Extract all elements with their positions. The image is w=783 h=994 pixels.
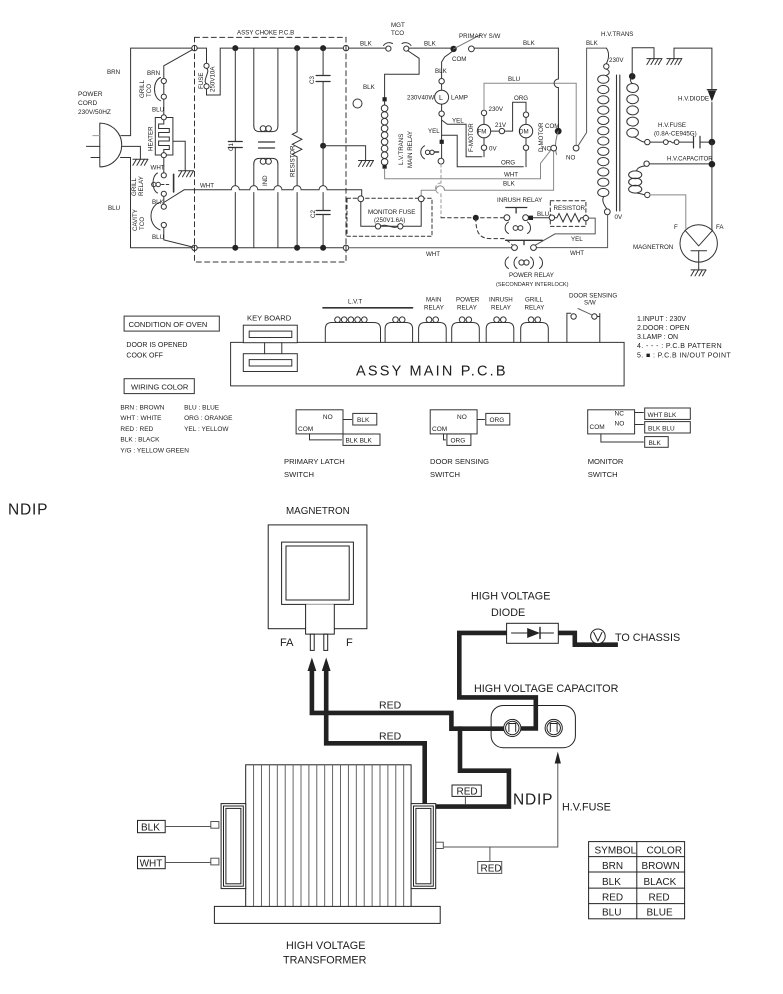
svg-text:WHT BLK: WHT BLK bbox=[648, 412, 677, 419]
capacitor terminal 2 bbox=[545, 719, 562, 736]
svg-text:BLK BLU: BLK BLU bbox=[648, 425, 675, 432]
HVT 0V terminal bbox=[603, 196, 607, 209]
inrush relay coil bbox=[505, 222, 530, 234]
yel wire resistor to power relay bbox=[534, 218, 596, 246]
svg-text:POWER: POWER bbox=[456, 297, 480, 304]
junction dots bottom bus bbox=[232, 245, 238, 251]
wire square to relay contact bbox=[441, 144, 443, 159]
LV trans pcb square top bbox=[383, 97, 387, 101]
condition of oven box bbox=[124, 316, 219, 331]
HV fuse bbox=[645, 139, 650, 144]
svg-text:YEL : YELLOW: YEL : YELLOW bbox=[184, 426, 229, 433]
svg-text:BLUE: BLUE bbox=[647, 908, 673, 919]
diode thick lead right bbox=[558, 633, 618, 645]
choke bottom coil (IND) bbox=[254, 158, 278, 164]
ground hvt2 bbox=[667, 59, 682, 65]
resistor element bbox=[549, 215, 554, 220]
svg-text:PRIMARY S/W: PRIMARY S/W bbox=[459, 33, 501, 40]
svg-text:RELAY: RELAY bbox=[491, 305, 511, 312]
dashed branch to power relay bbox=[476, 218, 512, 245]
svg-text:RED: RED bbox=[379, 700, 402, 712]
svg-text:WHT: WHT bbox=[140, 858, 163, 869]
svg-text:21V: 21V bbox=[495, 122, 507, 129]
svg-text:BLK: BLK bbox=[602, 877, 621, 888]
svg-text:230V: 230V bbox=[609, 57, 624, 64]
wht wire bottom long bbox=[349, 215, 608, 248]
svg-text:GRILL: GRILL bbox=[139, 80, 146, 98]
svg-text:BLACK: BLACK bbox=[644, 877, 677, 888]
svg-text:TRANSFORMER: TRANSFORMER bbox=[283, 955, 367, 967]
wire MGT TCO drop to LV trans bbox=[385, 51, 420, 98]
H.V. diode bbox=[711, 48, 713, 139]
svg-text:BLK: BLK bbox=[586, 40, 599, 47]
svg-text:RED : RED: RED : RED bbox=[120, 426, 153, 433]
svg-text:COLOR: COLOR bbox=[647, 846, 683, 857]
dashed pcb pattern from main relay down bbox=[440, 164, 442, 218]
svg-text:RED: RED bbox=[379, 731, 402, 743]
power relay coil bbox=[505, 257, 542, 269]
svg-text:ASSY CHOKE P.C.B: ASSY CHOKE P.C.B bbox=[237, 30, 294, 37]
secondary to fuse bbox=[634, 137, 645, 142]
svg-text:BLK: BLK bbox=[424, 41, 437, 48]
FA arrow bbox=[308, 658, 317, 672]
terminal T4 bottom-right of choke bbox=[343, 245, 348, 250]
svg-text:WHT: WHT bbox=[426, 251, 440, 258]
svg-text:PRIMARY LATCH: PRIMARY LATCH bbox=[284, 457, 345, 466]
magnetron inner box bbox=[286, 546, 349, 600]
svg-text:DOOR IS OPENED: DOOR IS OPENED bbox=[126, 342, 187, 349]
left thick wire into capacitor region bbox=[458, 633, 460, 695]
wire plug middle to ground bbox=[122, 146, 140, 159]
junction dots top bus bbox=[232, 45, 238, 51]
BLK box with lead bbox=[138, 820, 166, 832]
svg-text:COM: COM bbox=[452, 56, 466, 63]
HV fuse thin line with arrow bbox=[444, 762, 558, 847]
inrush relay dashed pattern wire bbox=[441, 217, 504, 219]
svg-text:H.V.CAPACITOR: H.V.CAPACITOR bbox=[667, 157, 713, 163]
svg-text:MONITOR FUSE: MONITOR FUSE bbox=[368, 209, 415, 216]
WHT hop wire through choke bbox=[184, 186, 362, 197]
svg-text:BRN: BRN bbox=[147, 70, 160, 77]
mounting hole circle bbox=[353, 99, 362, 108]
svg-text:DIODE: DIODE bbox=[491, 607, 525, 619]
svg-text:C3: C3 bbox=[309, 76, 316, 84]
right lug with lead bbox=[436, 842, 444, 848]
HVT secondary top dot bbox=[629, 73, 636, 80]
svg-text:250V10A: 250V10A bbox=[210, 66, 217, 92]
svg-text:WHT: WHT bbox=[570, 250, 584, 257]
svg-text:DOOR SENSING: DOOR SENSING bbox=[430, 457, 489, 466]
F-MOTOR bbox=[481, 110, 486, 115]
svg-text:0V: 0V bbox=[615, 214, 623, 221]
key board upper box bbox=[243, 325, 297, 343]
svg-text:ASSY MAIN P.C.B: ASSY MAIN P.C.B bbox=[356, 364, 508, 380]
svg-text:BLU: BLU bbox=[602, 908, 621, 919]
svg-text:MAGNETRON: MAGNETRON bbox=[633, 244, 673, 251]
HVT 230V terminal bbox=[606, 48, 608, 64]
resistor dashed box bbox=[550, 201, 586, 227]
right bobbin bbox=[411, 804, 436, 889]
wire inrush to resistor bbox=[533, 217, 549, 219]
svg-text:BLU : BLUE: BLU : BLUE bbox=[184, 405, 220, 412]
wire heater to grill relay bbox=[163, 158, 165, 173]
wire heater right tap to ground bbox=[173, 141, 185, 171]
dot at diode column fuse row bbox=[709, 139, 716, 146]
main relay contact circle bbox=[438, 158, 444, 164]
monitor switch diagram bbox=[588, 410, 635, 434]
svg-text:BLU: BLU bbox=[537, 211, 549, 218]
filament coil bbox=[637, 166, 645, 171]
svg-text:RELAY: RELAY bbox=[138, 176, 145, 196]
chassis screw symbol bbox=[591, 629, 606, 644]
grill relay bbox=[161, 173, 166, 178]
magnetron stem bbox=[306, 604, 335, 634]
D-MOTOR bbox=[523, 112, 528, 117]
choke top coil bbox=[254, 126, 278, 132]
svg-text:H.V.FUSE: H.V.FUSE bbox=[658, 122, 686, 129]
svg-text:FM: FM bbox=[478, 129, 487, 136]
BLK wire long hop bbox=[421, 151, 553, 196]
capacitor terminal 1 bbox=[504, 719, 521, 736]
wire BLU bottom from plug bbox=[121, 158, 192, 248]
door sw COM dot bbox=[555, 128, 562, 135]
monitor fuse dashed box bbox=[347, 198, 432, 236]
svg-text:(SECONDARY INTERLOCK): (SECONDARY INTERLOCK) bbox=[496, 282, 569, 288]
RED box 2 stem bbox=[489, 847, 491, 861]
svg-text:F: F bbox=[346, 637, 353, 649]
wire primary COM down to lamp bbox=[442, 51, 454, 79]
svg-text:DM: DM bbox=[519, 129, 529, 136]
svg-text:F: F bbox=[674, 224, 678, 231]
inrush relay contacts bbox=[504, 215, 510, 221]
svg-text:(250V1.6A): (250V1.6A) bbox=[374, 217, 405, 224]
svg-text:H.V.DIODE: H.V.DIODE bbox=[678, 96, 709, 103]
svg-text:MAGNETRON: MAGNETRON bbox=[286, 506, 350, 517]
svg-text:BLK: BLK bbox=[649, 440, 662, 447]
svg-text:L.V.TRANS: L.V.TRANS bbox=[398, 134, 405, 165]
choke core bbox=[259, 142, 275, 148]
svg-text:CORD: CORD bbox=[78, 100, 97, 107]
plug prong 3 bbox=[91, 157, 100, 159]
wire 21V to DM top bbox=[505, 102, 526, 131]
capacitor C3 bbox=[322, 48, 324, 142]
capacitor C1 bbox=[234, 48, 236, 248]
svg-text:MAIN: MAIN bbox=[426, 297, 441, 304]
magnetron middle box bbox=[282, 542, 354, 604]
WHT wire from LVT bottom bbox=[385, 150, 552, 179]
lamp bottom terminal bbox=[441, 104, 443, 111]
door sw blade bbox=[556, 131, 559, 154]
svg-text:BLK: BLK bbox=[141, 822, 160, 833]
svg-text:NO: NO bbox=[615, 421, 625, 428]
svg-text:C1: C1 bbox=[228, 143, 235, 151]
cavity TCO bbox=[161, 204, 166, 209]
svg-text:FUSE: FUSE bbox=[198, 72, 205, 89]
thick wire F path bbox=[326, 666, 511, 807]
door sw NO contact bbox=[573, 145, 579, 151]
HVT primary coil bbox=[606, 69, 609, 75]
svg-text:230V40W: 230V40W bbox=[407, 95, 434, 102]
plug prong 1 bbox=[93, 135, 100, 137]
fuse bbox=[204, 63, 209, 68]
svg-text:FA: FA bbox=[280, 637, 294, 649]
dot on dashed bbox=[473, 215, 479, 221]
base plate bbox=[214, 906, 440, 923]
HVT secondary coil bbox=[627, 84, 639, 93]
svg-text:ORG: ORG bbox=[514, 95, 528, 102]
svg-text:BLK BLK: BLK BLK bbox=[346, 438, 373, 445]
svg-text:RELAY: RELAY bbox=[424, 305, 444, 312]
svg-text:NC: NC bbox=[615, 411, 625, 418]
terminal T3 top-right of choke bbox=[343, 45, 348, 50]
svg-text:POWER RELAY: POWER RELAY bbox=[509, 272, 554, 279]
svg-text:H.V.TRANS: H.V.TRANS bbox=[601, 31, 633, 38]
diode thick lead left bbox=[459, 633, 536, 729]
svg-text:YEL: YEL bbox=[428, 128, 440, 135]
wiring color box bbox=[124, 379, 194, 394]
svg-text:HIGH VOLTAGE CAPACITOR: HIGH VOLTAGE CAPACITOR bbox=[474, 683, 619, 695]
svg-text:BLK: BLK bbox=[503, 181, 516, 188]
svg-text:BLU: BLU bbox=[152, 234, 164, 241]
HVT core bbox=[617, 75, 620, 211]
svg-text:BRN: BRN bbox=[602, 861, 623, 872]
svg-text:NO: NO bbox=[457, 414, 467, 421]
FM 0V stub to YEL wire bbox=[483, 150, 485, 156]
ground hvt1 bbox=[647, 59, 662, 65]
wire from T1 down-left to grill TCO bbox=[164, 50, 193, 79]
diode symbol bbox=[512, 632, 554, 634]
svg-text:LAMP: LAMP bbox=[451, 95, 468, 102]
wire filament F to magnetron bbox=[650, 195, 686, 229]
ground at plug bbox=[133, 159, 148, 165]
svg-text:(0.8A-CE945G): (0.8A-CE945G) bbox=[654, 131, 697, 138]
svg-text:BLK: BLK bbox=[357, 417, 370, 424]
svg-text:BRN : BROWN: BRN : BROWN bbox=[120, 405, 164, 412]
svg-text:TCO: TCO bbox=[139, 217, 146, 230]
svg-text:RESISTOR: RESISTOR bbox=[290, 145, 297, 177]
svg-text:L.V.T: L.V.T bbox=[348, 299, 362, 306]
svg-text:BLK : BLACK: BLK : BLACK bbox=[120, 437, 160, 444]
svg-text:BLU: BLU bbox=[152, 107, 164, 114]
bottom bus wire bbox=[197, 247, 345, 249]
svg-text:WHT: WHT bbox=[504, 172, 518, 179]
svg-text:NDIP: NDIP bbox=[8, 502, 48, 519]
svg-text:4. - - - : P.C.B PATTERN: 4. - - - : P.C.B PATTERN bbox=[637, 343, 722, 350]
svg-text:SWITCH: SWITCH bbox=[284, 470, 314, 479]
svg-text:FA: FA bbox=[716, 224, 724, 231]
LVT coil arch 2 bbox=[385, 323, 413, 343]
svg-text:RESISTOR: RESISTOR bbox=[554, 205, 586, 212]
diode box bbox=[507, 623, 559, 643]
svg-text:COM: COM bbox=[590, 424, 605, 431]
svg-text:RED: RED bbox=[602, 892, 623, 903]
svg-text:S/W: S/W bbox=[584, 300, 596, 307]
svg-text:COM: COM bbox=[298, 426, 313, 433]
svg-text:RED: RED bbox=[481, 863, 502, 874]
svg-text:WIRING COLOR: WIRING COLOR bbox=[131, 383, 189, 392]
svg-text:WHT: WHT bbox=[151, 165, 165, 172]
wire grill tco to heater bbox=[163, 84, 165, 115]
capacitor C2 bbox=[322, 146, 324, 248]
svg-text:F-MOTOR: F-MOTOR bbox=[468, 123, 475, 152]
RED box 1 stem bbox=[464, 796, 466, 804]
fuse to cap plates bbox=[679, 141, 709, 143]
svg-text:TCO: TCO bbox=[146, 84, 153, 97]
svg-text:SWITCH: SWITCH bbox=[430, 470, 460, 479]
wire to mid ground bbox=[323, 146, 366, 161]
primary switch blade bbox=[454, 35, 481, 49]
svg-text:BLK: BLK bbox=[360, 41, 373, 48]
choke pcb dashed box bbox=[195, 37, 347, 262]
svg-text:HIGH VOLTAGE: HIGH VOLTAGE bbox=[471, 591, 550, 603]
svg-text:GRILL: GRILL bbox=[525, 297, 543, 304]
wire diode column down to magnetron FA bbox=[711, 142, 713, 229]
svg-text:ORG: ORG bbox=[490, 417, 505, 424]
terminal T2 bottom-left of choke pcb bbox=[192, 245, 197, 250]
svg-text:BLK: BLK bbox=[435, 68, 448, 75]
pcb square after inrush bbox=[529, 216, 533, 220]
terminal T1 top-left of choke pcb bbox=[192, 45, 197, 50]
wire BRN top from plug bbox=[121, 48, 192, 136]
svg-text:BLU: BLU bbox=[508, 76, 520, 83]
svg-text:NO: NO bbox=[323, 414, 333, 421]
svg-text:C2: C2 bbox=[310, 210, 317, 218]
svg-text:TCO: TCO bbox=[391, 30, 404, 37]
svg-text:HEATER: HEATER bbox=[148, 126, 155, 151]
capacitor body bbox=[491, 706, 575, 748]
svg-text:TO CHASSIS: TO CHASSIS bbox=[615, 632, 680, 644]
svg-text:SYMBOL: SYMBOL bbox=[595, 846, 637, 857]
power relay contacts bbox=[512, 245, 518, 251]
LVT coil arch 1 bbox=[325, 323, 380, 343]
assy main pcb box bbox=[231, 342, 624, 386]
primary switch COM dot bbox=[450, 46, 456, 52]
key board lower box bbox=[243, 354, 297, 372]
wire primary switch to right BLK bbox=[474, 47, 558, 49]
svg-text:1.INPUT : 230V: 1.INPUT : 230V bbox=[637, 316, 686, 323]
svg-text:H.V.FUSE: H.V.FUSE bbox=[562, 802, 611, 814]
svg-text:MONITOR: MONITOR bbox=[588, 457, 624, 466]
magnetron outer box bbox=[268, 525, 367, 629]
svg-text:CONDITION OF OVEN: CONDITION OF OVEN bbox=[129, 320, 208, 329]
svg-text:SWITCH: SWITCH bbox=[588, 470, 618, 479]
choke transformer verticals bbox=[254, 48, 278, 248]
F arrow bbox=[322, 658, 331, 672]
plug prong 2 bbox=[86, 145, 99, 147]
RED box 2 bbox=[478, 862, 502, 874]
monitor fuse terminals bbox=[358, 196, 364, 202]
svg-text:NC: NC bbox=[542, 146, 551, 153]
svg-text:NDIP: NDIP bbox=[513, 792, 553, 809]
svg-text:YEL: YEL bbox=[571, 236, 583, 243]
svg-text:BRN: BRN bbox=[107, 69, 120, 76]
svg-text:YEL: YEL bbox=[452, 118, 464, 125]
svg-text:KEY BOARD: KEY BOARD bbox=[247, 314, 292, 323]
pcb point square on lamp chain bbox=[440, 140, 444, 144]
primary latch switch diagram bbox=[296, 410, 343, 434]
svg-text:IND: IND bbox=[262, 175, 269, 186]
wire cavity tco to T2 bbox=[164, 228, 194, 248]
main relay coil bbox=[421, 146, 425, 159]
monitor fuse wiring bbox=[361, 202, 421, 227]
door sensing switch diagram bbox=[430, 410, 477, 434]
resistor vertical bbox=[292, 48, 302, 248]
svg-text:2.DOOR : OPEN: 2.DOOR : OPEN bbox=[637, 325, 690, 332]
svg-text:DOOR SENSING: DOOR SENSING bbox=[569, 293, 617, 300]
svg-text:ORG : ORANGE: ORG : ORANGE bbox=[184, 415, 233, 422]
svg-text:L: L bbox=[439, 95, 443, 102]
svg-text:0V: 0V bbox=[489, 146, 497, 153]
power cord plug bbox=[100, 123, 122, 167]
svg-text:COOK OFF: COOK OFF bbox=[126, 353, 163, 360]
svg-text:5. ■ : P.C.B IN/OUT POINT: 5. ■ : P.C.B IN/OUT POINT bbox=[637, 353, 731, 360]
wire MGT TCO to primary switch bbox=[409, 47, 451, 49]
DM bottom to ORG wire bbox=[525, 150, 527, 166]
symbol color table bbox=[589, 842, 685, 919]
top wire T1 to fuse and bus bbox=[197, 48, 345, 95]
lamp bbox=[441, 84, 443, 90]
ground mid choke bbox=[359, 161, 374, 167]
door sw COM vertical with hop bbox=[554, 48, 558, 128]
svg-text:POWER: POWER bbox=[78, 91, 103, 98]
svg-text:WHT: WHT bbox=[200, 183, 214, 190]
svg-text:INRUSH RELAY: INRUSH RELAY bbox=[497, 197, 542, 204]
svg-text:BLK: BLK bbox=[523, 40, 536, 47]
FM 21V terminal bbox=[491, 130, 500, 132]
grill TCO bbox=[161, 78, 166, 83]
svg-text:MGT: MGT bbox=[391, 22, 405, 29]
RED box 1 bbox=[452, 785, 481, 796]
wire grill relay to cavity tco + WHT branch diagonal bbox=[164, 190, 184, 204]
svg-text:230V/50HZ: 230V/50HZ bbox=[78, 109, 111, 116]
svg-text:WHT : WHITE: WHT : WHITE bbox=[120, 415, 162, 422]
MGT TCO bbox=[386, 46, 391, 51]
magnetron pins bbox=[310, 634, 314, 650]
svg-text:HIGH VOLTAGE: HIGH VOLTAGE bbox=[286, 940, 365, 952]
svg-text:BROWN: BROWN bbox=[642, 861, 680, 872]
svg-text:CAVITY: CAVITY bbox=[132, 209, 139, 231]
svg-text:COM: COM bbox=[432, 426, 447, 433]
LVT bar bbox=[323, 307, 413, 309]
wire secondary top to ground bbox=[632, 48, 654, 77]
ground at heater bbox=[179, 171, 194, 177]
junction dot between C3 C2 bbox=[320, 143, 326, 149]
NO blade diagonal bbox=[578, 48, 606, 146]
svg-text:COM: COM bbox=[545, 123, 559, 130]
svg-text:INRUSH: INRUSH bbox=[489, 297, 513, 304]
svg-text:RELAY: RELAY bbox=[457, 305, 477, 312]
svg-text:MAIN RELAY: MAIN RELAY bbox=[407, 131, 414, 168]
ORG branch wire bbox=[442, 135, 524, 167]
wire diode top to ground bbox=[674, 48, 712, 59]
lamp top terminal bbox=[439, 79, 444, 84]
WHT box with lead bbox=[138, 856, 166, 868]
svg-text:BLK: BLK bbox=[363, 84, 376, 91]
svg-text:RED: RED bbox=[457, 787, 478, 798]
svg-text:GRILL: GRILL bbox=[131, 178, 138, 196]
LV trans coil bbox=[384, 101, 386, 105]
filament top wire bbox=[644, 161, 649, 166]
svg-text:RELAY: RELAY bbox=[525, 305, 545, 312]
left bobbin bbox=[221, 804, 246, 889]
wire lamp to main chain and yel branch bbox=[442, 116, 482, 156]
svg-text:NO: NO bbox=[566, 155, 575, 162]
primary switch NO contact bbox=[469, 46, 475, 52]
svg-text:BLU: BLU bbox=[108, 205, 120, 212]
svg-text:3.LAMP : ON: 3.LAMP : ON bbox=[637, 334, 678, 341]
heater bbox=[155, 118, 173, 156]
magnetron symbol bbox=[680, 225, 717, 262]
